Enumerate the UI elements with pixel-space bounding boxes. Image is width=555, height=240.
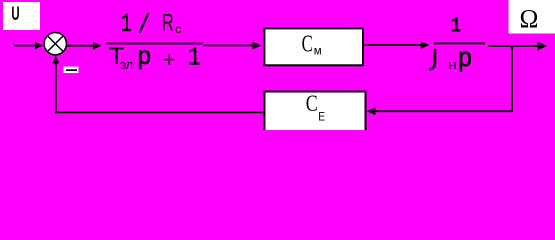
svg-text:p: p (138, 42, 151, 70)
svg-text:Ω: Ω (520, 4, 539, 33)
wire feedback up arrow into summer (55, 63, 57, 112)
block Cm box (264, 28, 363, 65)
block W2 fraction bar (434, 42, 485, 44)
svg-text:н: н (448, 58, 457, 73)
node Omega output label box (509, 0, 555, 34)
wire Cm to block W2 (364, 44, 422, 46)
wire W2 to output (488, 45, 539, 47)
svg-text:+: + (163, 47, 176, 72)
svg-text:м: м (314, 46, 322, 58)
svg-text:U: U (11, 4, 19, 25)
wire bottom right into Ce (374, 110, 513, 112)
svg-text:1: 1 (450, 14, 461, 39)
wire input arrow into summer (14, 45, 36, 47)
svg-text:p: p (458, 43, 472, 72)
wire bottom left from Ce to summer (55, 111, 264, 113)
svg-text:1: 1 (121, 9, 132, 39)
svg-text:Е: Е (318, 111, 325, 124)
node U input label box (3, 2, 40, 30)
summing junction (44, 33, 66, 55)
block W2 denominator J н p (429, 49, 435, 69)
block Ce box (265, 92, 366, 135)
svg-text:С: С (306, 92, 318, 117)
wire W1 to block Cm (204, 44, 254, 46)
svg-text:эл: эл (120, 58, 133, 72)
svg-text:С: С (302, 29, 313, 57)
block W1 fraction bar (106, 43, 203, 45)
wire branch vertical down from output line (511, 46, 513, 111)
wire summer to block W1 (67, 45, 95, 47)
svg-text:c: c (175, 23, 182, 36)
svg-text:1: 1 (188, 44, 201, 73)
svg-text:R: R (162, 10, 174, 37)
minus sign at feedback input (64, 67, 79, 74)
